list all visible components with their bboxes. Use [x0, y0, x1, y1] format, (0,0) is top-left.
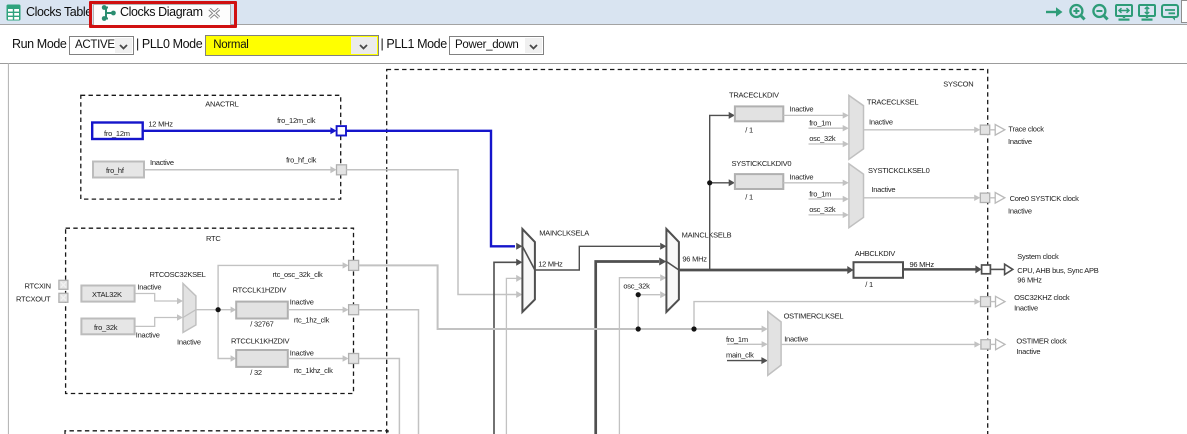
PLL1 Mode combo Power_down [449, 36, 544, 55]
svg-text:rtc_1khz_clk: rtc_1khz_clk [294, 366, 333, 375]
wire branch up to OSC32KHZ clock output [694, 302, 975, 329]
wire junction to SYSTICKCLKDIV0 [710, 182, 729, 184]
svg-text:fro_12m_clk: fro_12m_clk [277, 116, 316, 125]
SYSCON section dashed box [387, 70, 988, 434]
mux MAINCLKSELB (active) [666, 229, 679, 312]
svg-text:rtc_osc_32k_clk: rtc_osc_32k_clk [273, 270, 324, 279]
svg-text:/ 1: / 1 [865, 280, 873, 289]
svg-text:Inactive: Inactive [1016, 347, 1040, 356]
svg-text:Inactive: Inactive [871, 185, 895, 194]
junction dot osc_32k upper [636, 292, 641, 297]
svg-text:RTCCLK1KHZDIV: RTCCLK1KHZDIV [231, 337, 290, 346]
diagram frame left edge [7, 63, 9, 434]
output arrow OSTIMER clock [996, 339, 1005, 350]
svg-text:96 MHz: 96 MHz [682, 255, 707, 264]
divider RTCCLK1HZDIV (inactive) [236, 302, 288, 319]
red highlight rectangle annotation [89, 1, 237, 28]
output arrow Trace clock [995, 125, 1005, 136]
wire RTCCLK1HZDIV to rtc_1hz_clk port [288, 309, 343, 311]
svg-text:CPU, AHB bus, Sync APB: CPU, AHB bus, Sync APB [1017, 266, 1098, 275]
Run Mode combo ACTIVE [69, 36, 134, 55]
wire fro_1m stub to SYSTICKCLKSEL0 in2 [809, 198, 844, 200]
svg-text:fro_hf: fro_hf [106, 166, 125, 175]
wire fro_12m to fro_12m_clk port (blue) [144, 130, 332, 132]
ANACTRL section dashed box [81, 95, 341, 199]
svg-text:/ 1: / 1 [745, 193, 753, 202]
svg-text:fro_12m: fro_12m [104, 129, 130, 138]
wire TRACECLKSEL out to Trace port [864, 129, 975, 131]
wire osc_32k stub to TRACECLKSEL in3 [809, 143, 844, 145]
toolbar icon fit height [1138, 4, 1156, 21]
wire port to arrow Core0 SYSTICK [990, 197, 996, 199]
tab Clocks Table label [26, 5, 92, 19]
wire TRACECLKDIV to TRACECLKSEL in1 [783, 114, 843, 116]
divider SYSTICKCLKDIV0 (inactive) [735, 174, 783, 189]
svg-text:fro_1m: fro_1m [726, 335, 748, 344]
svg-text:12 MHz: 12 MHz [538, 259, 563, 268]
svg-text:Inactive: Inactive [1014, 303, 1038, 312]
svg-text:Inactive: Inactive [869, 117, 893, 126]
svg-text:TRACECLKSEL: TRACECLKSEL [867, 98, 919, 107]
svg-text:/ 32: / 32 [250, 368, 262, 377]
wire osc_32k stub to SYSTICKCLKSEL0 in3 [809, 214, 844, 216]
port Trace clock [980, 125, 989, 134]
mux MAINCLKSELA (active) [522, 229, 535, 312]
svg-text:fro_1m: fro_1m [809, 118, 831, 127]
wire fro_32k to RTCOSC32KSEL in2 [136, 318, 178, 327]
svg-text:Inactive: Inactive [1008, 137, 1032, 146]
svg-text:AHBCLKDIV: AHBCLKDIV [855, 249, 896, 258]
svg-text:OSTIMERCLKSEL: OSTIMERCLKSEL [784, 312, 844, 321]
source XTAL32K (inactive) [81, 286, 134, 302]
svg-text:96 MHz: 96 MHz [910, 260, 935, 269]
svg-text:Inactive: Inactive [790, 173, 814, 182]
svg-text:OSC32KHZ clock: OSC32KHZ clock [1014, 293, 1070, 302]
PLL1 Mode label [381, 37, 447, 51]
port fro_12m_clk (blue) [337, 126, 346, 135]
wire XTAL32K to RTCOSC32KSEL in1 [136, 294, 178, 302]
right edge white box [1181, 0, 1187, 23]
svg-text:/ 1: / 1 [745, 125, 753, 134]
bottom section dashed box (cut off) [65, 431, 388, 434]
svg-text:Inactive: Inactive [150, 158, 174, 167]
wire pll0 feed to MAINCLKSELA in2 (from bottom) [494, 262, 517, 434]
wire OSTIMERCLKSEL out to OSTIMER port [781, 343, 975, 345]
svg-text:Core0 SYSTICK clock: Core0 SYSTICK clock [1010, 194, 1080, 203]
svg-text:osc_32k: osc_32k [809, 205, 836, 214]
wire port to arrow OSC32KHZ [991, 301, 996, 303]
output arrow Core0 SYSTICK clock [995, 193, 1005, 204]
wire main_clk branch up to dividers [710, 115, 729, 270]
toolbar icon arrow right [1045, 5, 1064, 19]
svg-text:RTCCLK1HZDIV: RTCCLK1HZDIV [233, 285, 287, 294]
wire RTCCLK1KHZDIV to rtc_1khz_clk port [288, 358, 343, 360]
PLL0 Mode combo Normal (yellow) [205, 35, 379, 56]
svg-text:osc_32k: osc_32k [623, 281, 650, 290]
svg-text:/ 32767: / 32767 [250, 320, 273, 329]
svg-text:ANACTRL: ANACTRL [205, 99, 238, 108]
wire port to arrow Trace [990, 129, 996, 131]
junction dot osc32khz branch [691, 326, 696, 331]
tab close X icon [208, 8, 221, 19]
port rtc_1khz_clk [349, 354, 359, 364]
tab Clocks Table icon [6, 4, 21, 21]
svg-text:12 MHz: 12 MHz [148, 120, 173, 129]
wire port to arrow System clock [990, 268, 1004, 270]
wire SYSTICKCLKSEL0 out to Core0 SYSTICK port [864, 197, 975, 199]
svg-text:fro_hf_clk: fro_hf_clk [286, 155, 317, 164]
svg-text:Inactive: Inactive [177, 338, 201, 347]
svg-text:Inactive: Inactive [790, 105, 814, 114]
svg-text:Inactive: Inactive [290, 297, 314, 306]
wire pll0_clk 96MHz to MAINCLKSELB in2 (thick, from bottom) [596, 262, 659, 434]
Run Mode label [12, 37, 66, 51]
svg-text:MAINCLKSELB: MAINCLKSELB [682, 231, 732, 240]
source fro_12m (active, selected blue) [92, 123, 143, 140]
svg-text:SYSCON: SYSCON [943, 80, 973, 89]
PLL0 Mode label [136, 37, 202, 51]
wire osc_32k vertical branch [637, 295, 639, 329]
junction dot osc_32k on bus [636, 326, 641, 331]
port OSTIMER clock [981, 340, 990, 349]
wire SYSTICKCLKDIV0 to SYSTICKCLKSEL0 in1 [783, 182, 843, 184]
divider TRACECLKDIV (inactive) [735, 106, 783, 121]
svg-text:fro_1m: fro_1m [809, 189, 831, 198]
mux TRACECLKSEL (inactive) [849, 95, 864, 159]
mux SYSTICKCLKSEL0 (inactive) [849, 164, 864, 228]
svg-text:96 MHz: 96 MHz [1017, 276, 1042, 285]
wire AHBCLKDIV to System clock port (thick) [903, 268, 976, 271]
wire junction up to rtc_osc_32k_clk port [218, 265, 343, 309]
RTC section dashed box [66, 228, 354, 393]
wire RTCOSC32KSEL output to junction [196, 309, 231, 311]
tab Clocks Diagram (selected, white) [93, 4, 231, 26]
toolbar icon fit width [1115, 4, 1133, 21]
toolbar icon comment bubble [1161, 4, 1179, 21]
toolbar icon zoom in [1068, 3, 1087, 21]
svg-text:Inactive: Inactive [136, 331, 160, 340]
wire fro_1m stub to OSTIMERCLKSEL in2 [727, 343, 762, 345]
svg-text:RTC: RTC [206, 234, 221, 243]
svg-text:TRACECLKDIV: TRACECLKDIV [729, 90, 779, 99]
output arrow OSC32KHZ clock [996, 296, 1006, 307]
wire fro_1m stub to TRACECLKSEL in2 [809, 127, 844, 129]
svg-text:fro_32k: fro_32k [94, 323, 118, 332]
port rtc_1hz_clk [349, 305, 359, 315]
source fro_hf (inactive) [93, 162, 144, 178]
svg-text:Inactive: Inactive [290, 349, 314, 358]
wire junction to RTCCLK1HZDIV [231, 307, 237, 313]
svg-text:Trace clock: Trace clock [1008, 125, 1044, 134]
wire MAINCLKSELA out to MAINCLKSELB in1 [535, 246, 660, 270]
wire junction down to RTCCLK1KHZDIV [218, 310, 231, 359]
output arrow System clock (active) [1005, 264, 1013, 274]
svg-text:XTAL32K: XTAL32K [92, 290, 122, 299]
svg-text:Inactive: Inactive [1008, 207, 1032, 216]
toolbar icon zoom out [1091, 3, 1110, 21]
svg-text:System clock: System clock [1017, 252, 1059, 261]
wire fro_hf to fro_hf_clk port [145, 169, 332, 171]
wire osc_32k junction to MAINCLKSELB in4 [638, 294, 660, 296]
osc_32k net from rtc_osc_32k_clk port [359, 265, 762, 329]
svg-text:RTCOSC32KSEL: RTCOSC32KSEL [150, 270, 206, 279]
divider RTCCLK1KHZDIV (inactive) [236, 350, 288, 367]
wire fro_hf_clk to MAINCLKSELA in4 [347, 170, 517, 295]
tab Clocks Diagram label [120, 5, 203, 19]
svg-text:SYSTICKCLKDIV0: SYSTICKCLKDIV0 [732, 159, 792, 168]
svg-text:SYSTICKCLKSEL0: SYSTICKCLKSEL0 [868, 166, 930, 175]
wire feed to MAINCLKSELB in3 (from bottom) [619, 278, 660, 434]
svg-text:MAINCLKSELA: MAINCLKSELA [539, 229, 589, 238]
port fro_hf_clk [337, 165, 347, 175]
junction dot dividers feed [707, 180, 712, 185]
wire main_clk 96MHz to AHBCLKDIV (thick) [679, 269, 848, 272]
svg-text:Inactive: Inactive [137, 282, 161, 291]
source fro_32k (inactive) [81, 319, 134, 335]
tab Clocks Diagram icon [100, 4, 118, 22]
svg-text:Inactive: Inactive [784, 334, 808, 343]
port OSC32KHZ clock [981, 297, 991, 307]
svg-text:RTCXOUT: RTCXOUT [16, 294, 51, 303]
wire port to arrow OSTIMER [990, 343, 995, 345]
divider AHBCLKDIV (active) [854, 262, 904, 278]
wire main_clk stub to OSTIMERCLKSEL in3 (dark) [727, 360, 762, 362]
svg-text:osc_32k: osc_32k [809, 134, 836, 143]
svg-text:main_clk: main_clk [726, 350, 754, 359]
port System clock (active) [982, 265, 991, 274]
svg-text:OSTIMER clock: OSTIMER clock [1016, 337, 1067, 346]
junction dot RTC [216, 307, 221, 312]
wire rtc_1hz_clk going down off bottom [359, 310, 419, 434]
svg-text:RTCXIN: RTCXIN [25, 281, 51, 290]
wire feed to MAINCLKSELA in3 (from bottom) [506, 278, 516, 434]
mux OSTIMERCLKSEL (inactive) [768, 312, 781, 376]
port Core0 SYSTICK clock [980, 193, 989, 202]
mux RTCOSC32KSEL (inactive) [183, 284, 196, 333]
wire rtc_1khz_clk going down off bottom [359, 359, 400, 434]
wire fro_12m_clk to MAINCLKSELA in1 (blue) [346, 131, 515, 247]
port rtc_osc_32k_clk [349, 260, 359, 270]
svg-text:rtc_1hz_clk: rtc_1hz_clk [294, 316, 330, 325]
